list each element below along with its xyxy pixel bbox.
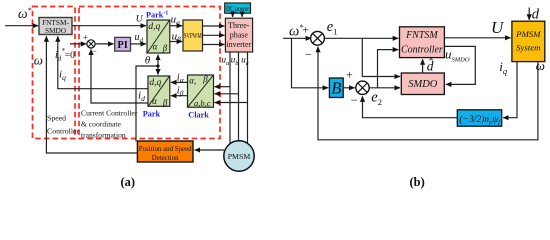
FNTSM Controller block xyxy=(400,27,445,58)
wire: B to junction e2 xyxy=(343,87,355,89)
PMSM System block xyxy=(512,21,545,61)
dashed region: Speed Controller xyxy=(33,7,76,139)
svg-text:Park-1: Park-1 xyxy=(146,10,168,19)
gain block B xyxy=(329,78,343,98)
svg-text:FNTSM: FNTSM xyxy=(405,30,438,41)
svg-text:Controller: Controller xyxy=(47,127,79,136)
wire: i-beta Clark to Park xyxy=(171,95,188,97)
svg-text:ω*: ω* xyxy=(18,6,32,21)
svg-text:Clark: Clark xyxy=(188,111,209,120)
svg-text:e2: e2 xyxy=(371,90,382,108)
svg-text:uα: uα xyxy=(171,14,182,27)
svg-text:Speed: Speed xyxy=(47,114,66,123)
svg-text:DC power: DC power xyxy=(226,5,249,13)
wire: theta down into Park xyxy=(157,66,159,75)
svg-text:phase: phase xyxy=(230,31,249,40)
wire: DC power to inverter left xyxy=(232,13,234,17)
svg-text:SMDO: SMDO xyxy=(408,79,438,90)
wire: phase a tap to Clark xyxy=(215,86,231,88)
wire: U FNTSM controller to PMSM system xyxy=(444,37,510,39)
svg-text:+: + xyxy=(346,68,353,82)
wire: d-hat SMDO to FNTSM xyxy=(422,59,424,73)
svg-text:−: − xyxy=(351,93,358,107)
svg-text:PMSM: PMSM xyxy=(228,152,251,161)
wire: gain box output to junction e2 xyxy=(363,96,458,117)
wire: omega-star input (b) xyxy=(283,37,311,39)
svg-text:transformation: transformation xyxy=(81,131,126,140)
wire: theta up into inverse Park xyxy=(157,55,159,66)
SMDO block xyxy=(401,73,444,95)
wire: phase c line to motor xyxy=(247,52,249,144)
svg-text:ω*: ω* xyxy=(289,23,303,40)
svg-text:iq: iq xyxy=(59,69,66,83)
svg-text:PMSM: PMSM xyxy=(515,29,541,39)
svg-text:U: U xyxy=(136,15,144,25)
svg-text:d: d xyxy=(532,7,540,23)
wire: omega feedback to FNTSM-SMDO xyxy=(46,36,137,153)
svg-text:(a): (a) xyxy=(121,175,136,189)
svg-text:id: id xyxy=(138,90,145,104)
wire: phase a line to motor xyxy=(229,52,231,144)
svg-text:(−3/2)npψf: (−3/2)npψf xyxy=(459,114,501,126)
dashed region: Current Controller & coordinate transformation xyxy=(79,7,220,139)
wire: e2 to SMDO xyxy=(369,87,400,89)
svg-text:uSMDO: uSMDO xyxy=(445,47,470,64)
wire: phase b line to motor xyxy=(238,52,240,142)
svg-text:d,q: d,q xyxy=(148,22,160,32)
wire: e1 branch down to SMDO xyxy=(362,38,400,76)
wire: disturbance d into PMSM system xyxy=(528,8,530,20)
wire: U from FNTSM-SMDO to inverse Park xyxy=(72,25,146,27)
summing junction e1 xyxy=(302,22,324,61)
svg-text:ua: ua xyxy=(222,55,230,67)
Position and Speed Detection block xyxy=(137,141,193,162)
svg-text:B: B xyxy=(331,79,342,98)
wire: omega feedback loop to junction e1 xyxy=(318,47,538,140)
svg-text:SVPWM: SVPWM xyxy=(184,31,202,40)
wire: e1 to FNTSM controller xyxy=(324,37,398,39)
wire: i-alpha Clark to Park xyxy=(171,81,188,83)
svg-text:Position and Speed: Position and Speed xyxy=(139,146,192,153)
svg-text:β: β xyxy=(162,97,168,107)
svg-text:SMDO: SMDO xyxy=(45,26,66,35)
svg-text:& coordinate: & coordinate xyxy=(81,120,121,129)
node theta junction dot xyxy=(156,64,159,67)
summing junction (current loop) xyxy=(83,32,97,56)
svg-text:+: + xyxy=(302,22,309,36)
svg-text:Three-: Three- xyxy=(228,21,250,30)
inverse Park transform block xyxy=(147,20,170,53)
svg-text:d,q: d,q xyxy=(149,78,161,88)
wires: SVPWM to inverter (3 gate lines) xyxy=(203,25,225,27)
svg-text:+: + xyxy=(83,32,88,42)
svg-text:θ: θ xyxy=(145,55,151,67)
svg-text:β: β xyxy=(202,74,208,84)
svg-text:−: − xyxy=(92,46,97,56)
wire: iq output down to gain box xyxy=(503,62,517,118)
svg-text:β: β xyxy=(162,43,168,53)
svg-text:Park: Park xyxy=(143,109,161,118)
svg-text:ω: ω xyxy=(34,52,43,67)
svg-text:α: α xyxy=(153,42,158,52)
svg-text:iα: iα xyxy=(177,72,185,84)
svg-text:(b): (b) xyxy=(410,175,425,189)
wire: DC power to inverter right xyxy=(241,13,243,17)
svg-text:Controller: Controller xyxy=(401,45,443,56)
svg-text:a,b,c: a,b,c xyxy=(194,98,211,108)
Clark transform block xyxy=(188,74,214,108)
PMSM motor circle xyxy=(224,141,254,171)
svg-text:uβ: uβ xyxy=(172,30,182,43)
summing junction e2 xyxy=(346,68,369,108)
svg-text:Detection: Detection xyxy=(152,155,179,162)
svg-text:PI: PI xyxy=(117,40,128,51)
wire: iq feedback Park to FNTSM-SMDO xyxy=(58,36,148,88)
svg-text:ω: ω xyxy=(536,58,545,73)
wire: omega-star branch to B xyxy=(292,38,329,88)
wire: u-SMDO feedback to SMDO xyxy=(444,46,475,84)
svg-text:inverter: inverter xyxy=(226,40,251,49)
controller block FNTSM-SMDO xyxy=(39,18,72,35)
svg-text:d̂: d̂ xyxy=(427,59,434,74)
torque gain block -3/2 np psi-f xyxy=(457,110,501,126)
svg-text:−: − xyxy=(305,48,312,62)
svg-text:Current Controller: Current Controller xyxy=(81,109,138,118)
wire: theta from position detection up xyxy=(136,66,158,142)
SVPWM block xyxy=(183,20,203,51)
wire: PMSM to position detection xyxy=(195,149,224,151)
svg-text:iβ: iβ xyxy=(177,85,184,97)
wire: speed reference input xyxy=(5,25,38,27)
wire: id feedback Park to junction xyxy=(91,49,148,103)
wire: id* into summing junction xyxy=(70,43,86,45)
svg-text:iq: iq xyxy=(499,59,508,76)
svg-text:e1: e1 xyxy=(327,19,338,37)
PI block xyxy=(115,37,131,51)
wire: e2 branch up to FNTSM controller xyxy=(378,50,399,88)
wire: ud from PI to inverse Park xyxy=(131,43,147,45)
wire: junction to PI xyxy=(95,43,113,45)
wire: u-alpha to SVPWM xyxy=(170,25,182,27)
svg-text:U: U xyxy=(491,18,505,37)
svg-text:α: α xyxy=(152,96,157,106)
svg-text:α,: α, xyxy=(189,75,196,85)
Three-phase inverter block xyxy=(225,18,252,52)
DC power block xyxy=(225,3,251,13)
wire: phase c tap to Clark xyxy=(215,102,248,104)
wire: phase b tap to Clark xyxy=(215,93,239,95)
wire: u-beta to SVPWM xyxy=(170,41,182,43)
Park transform block xyxy=(148,76,170,107)
svg-text:System: System xyxy=(516,43,540,53)
svg-text:ud: ud xyxy=(135,32,144,44)
